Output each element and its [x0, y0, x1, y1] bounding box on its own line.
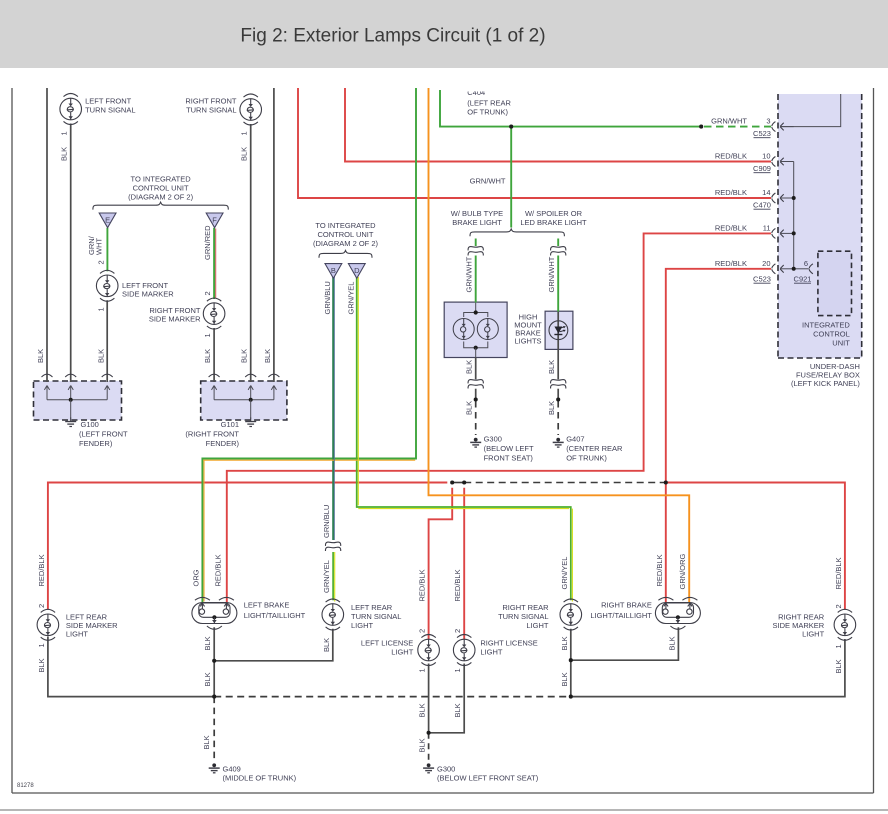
svg-text:CONTROL UNIT: CONTROL UNIT [318, 230, 374, 239]
svg-text:RED/BLK: RED/BLK [655, 554, 664, 586]
svg-text:1: 1 [203, 333, 212, 337]
wire GRN/WHT branch to bulb type high mount box [475, 239, 477, 247]
svg-text:BLK: BLK [202, 735, 211, 749]
svg-text:2: 2 [834, 604, 843, 608]
connector entry pin 11 [772, 228, 794, 238]
svg-text:GRN/ORG: GRN/ORG [678, 554, 687, 590]
break connector on left GRN/WHT branch [468, 247, 483, 256]
wire GRN/WHT horizontal to fuse box pin 3 [440, 90, 701, 127]
svg-text:(BELOW LEFT: (BELOW LEFT [484, 444, 534, 453]
svg-text:D: D [354, 266, 360, 275]
svg-text:BLK: BLK [465, 401, 474, 415]
wire BLK left brake light to ground bus [213, 627, 215, 696]
svg-text:BLK: BLK [547, 401, 556, 415]
svg-text:GRN/BLU: GRN/BLU [322, 505, 331, 538]
svg-text:BLK: BLK [96, 349, 105, 363]
junction dot right turn ground [569, 658, 573, 662]
junction dot fuse box bus pin11 [792, 231, 796, 235]
svg-text:TO INTEGRATED: TO INTEGRATED [315, 221, 376, 230]
svg-text:C523: C523 [753, 275, 771, 284]
junction dot ground bus left [212, 695, 216, 699]
svg-text:TURN SIGNAL: TURN SIGNAL [85, 106, 135, 115]
svg-text:BLK: BLK [203, 672, 212, 686]
connector entry pin 3 C523 [772, 122, 794, 132]
wire BLK dashed drop to G409 [213, 697, 215, 760]
lamp LEFT BRAKE LIGHT/TAILLIGHT [192, 597, 237, 629]
svg-text:OF TRUNK): OF TRUNK) [566, 453, 607, 462]
svg-text:TURN SIGNAL: TURN SIGNAL [351, 612, 401, 621]
svg-text:LIGHT/TAILLIGHT: LIGHT/TAILLIGHT [244, 611, 306, 620]
wire RED/BLK splice to left license light [429, 488, 453, 640]
connector F triangle [206, 213, 223, 228]
connector D triangle [348, 264, 365, 279]
svg-text:G300: G300 [437, 765, 455, 774]
svg-text:2: 2 [37, 604, 46, 608]
svg-text:G100: G100 [81, 420, 99, 429]
svg-text:20: 20 [762, 259, 770, 268]
svg-text:2: 2 [203, 291, 212, 295]
svg-text:BLK: BLK [37, 658, 46, 672]
connector entry pin 10 C909 [772, 157, 794, 167]
wire entry cups ground boxes [42, 374, 53, 377]
svg-text:GRN/YEL: GRN/YEL [560, 557, 569, 590]
svg-text:GRN/RED: GRN/RED [203, 225, 212, 260]
svg-text:TURN SIGNAL: TURN SIGNAL [498, 612, 548, 621]
svg-text:LIGHT: LIGHT [391, 648, 414, 657]
wire inside fuse box: pin3 feed from ICU top [780, 94, 841, 127]
svg-text:LEFT LICENSE: LEFT LICENSE [361, 639, 413, 648]
svg-text:RED/BLK: RED/BLK [715, 188, 747, 197]
junction dot ground bus right [569, 695, 573, 699]
lamp RIGHT LICENSE LIGHT [453, 635, 475, 666]
svg-text:6: 6 [804, 259, 808, 268]
junction dot fuse box bus pin14 [792, 196, 796, 200]
svg-text:C921: C921 [794, 275, 812, 284]
wire BLK solid bus right side marker [572, 639, 845, 697]
svg-text:CONTROL UNIT: CONTROL UNIT [133, 184, 189, 193]
svg-text:FRONT SEAT): FRONT SEAT) [484, 453, 534, 462]
svg-text:INTEGRATED: INTEGRATED [802, 321, 850, 330]
svg-text:81278: 81278 [17, 783, 34, 789]
svg-text:BLK: BLK [240, 349, 249, 363]
ground G300 (below left front seat) mid [470, 438, 481, 447]
ground G407 (center rear of trunk) [553, 438, 564, 447]
svg-text:RED/BLK: RED/BLK [453, 569, 462, 601]
svg-text:GRN/WHT: GRN/WHT [465, 256, 474, 292]
lamp RIGHT REAR SIDE MARKER LIGHT [834, 609, 856, 640]
junction dot splice right license [462, 480, 466, 484]
lamp RIGHT REAR TURN SIGNAL LIGHT [560, 599, 582, 630]
svg-text:W/ SPOILER OR: W/ SPOILER OR [525, 209, 583, 218]
svg-text:1: 1 [37, 643, 46, 647]
wire BLK right column into G101 [273, 88, 275, 382]
svg-text:LIGHT: LIGHT [351, 621, 374, 630]
svg-text:GRN/BLU: GRN/BLU [323, 281, 332, 314]
svg-text:BLK: BLK [547, 360, 556, 374]
svg-text:BLK: BLK [560, 636, 569, 650]
svg-text:RED/BLK: RED/BLK [834, 557, 843, 589]
junction dot license lights join [427, 731, 431, 735]
svg-text:(LEFT FRONT: (LEFT FRONT [79, 430, 128, 439]
svg-text:C523: C523 [753, 129, 771, 138]
wire RED/BLK branch to right rear side marker [666, 483, 845, 610]
wire BLK left license light drop [428, 664, 430, 733]
svg-text:C909: C909 [753, 164, 771, 173]
svg-text:BLK: BLK [453, 703, 462, 717]
svg-text:BLK: BLK [36, 349, 45, 363]
svg-text:1: 1 [834, 644, 843, 648]
svg-text:FENDER): FENDER) [206, 439, 240, 448]
svg-text:GRN/YEL: GRN/YEL [322, 560, 331, 593]
svg-text:BLK: BLK [203, 349, 212, 363]
lamp LEFT REAR SIDE MARKER LIGHT [37, 609, 59, 640]
svg-text:(BELOW LEFT FRONT SEAT): (BELOW LEFT FRONT SEAT) [437, 774, 539, 783]
wire BLK right license light joins left [430, 664, 465, 733]
wire BLK from left front side marker to G100 [106, 300, 108, 382]
lamp HIGH MOUNT BRAKE LIGHTS bulb 2 [477, 318, 498, 339]
brace to integrated control unit (middle) [319, 250, 372, 257]
svg-text:G407: G407 [566, 435, 584, 444]
svg-text:FENDER): FENDER) [79, 439, 113, 448]
svg-text:G300: G300 [484, 435, 502, 444]
connector C921 socket [809, 264, 813, 274]
svg-text:RED/BLK: RED/BLK [37, 554, 46, 586]
svg-text:LIGHT: LIGHT [802, 630, 825, 639]
wire BLK right rear turn signal to ground bus [570, 629, 572, 697]
wire ORG orange stripe [203, 459, 415, 461]
svg-text:GRN/YEL: GRN/YEL [346, 282, 355, 315]
svg-text:10: 10 [762, 152, 770, 161]
svg-text:2: 2 [96, 260, 105, 264]
svg-text:RIGHT FRONT: RIGHT FRONT [185, 97, 237, 106]
svg-text:LIGHT: LIGHT [66, 630, 89, 639]
svg-text:2: 2 [453, 629, 462, 633]
junction dot splice left license [450, 480, 454, 484]
lamp RIGHT BRAKE LIGHT/TAILLIGHT [655, 597, 700, 629]
wire GRN/BLU from connector B [332, 276, 334, 541]
wire GRN/RED red stripe [215, 229, 217, 299]
wire GRN/RED connector F to right front side marker [213, 228, 215, 299]
junction dot pin20 branch [664, 480, 668, 484]
svg-text:(RIGHT FRONT: (RIGHT FRONT [185, 430, 239, 439]
svg-text:W/ BULB TYPE: W/ BULB TYPE [451, 209, 503, 218]
svg-text:2: 2 [418, 629, 427, 633]
connector E triangle [99, 213, 116, 228]
junction dot GRN/WHT tap [509, 125, 513, 129]
integrated control unit box [818, 251, 852, 315]
led HIGH MOUNT BRAKE LIGHT (led type) [549, 312, 568, 350]
lamp LEFT FRONT TURN SIGNAL [60, 94, 82, 125]
svg-text:WHT: WHT [95, 238, 104, 255]
svg-text:(LEFT REAR: (LEFT REAR [467, 99, 511, 108]
wire RED/BLK pin 20 down to right brake light/taillight [666, 269, 771, 603]
svg-text:(MIDDLE OF TRUNK): (MIDDLE OF TRUNK) [223, 774, 297, 783]
svg-text:LEFT BRAKE: LEFT BRAKE [244, 601, 290, 610]
svg-text:1: 1 [240, 131, 249, 135]
svg-text:RIGHT LICENSE: RIGHT LICENSE [480, 639, 537, 648]
connector B triangle [325, 264, 342, 279]
svg-text:1: 1 [418, 668, 427, 672]
ground box G101 (right front fender) [201, 381, 287, 420]
svg-text:LIGHT: LIGHT [526, 621, 549, 630]
svg-text:CONTROL: CONTROL [813, 330, 850, 339]
svg-text:11: 11 [763, 223, 771, 232]
wire inside fuse box: vertical bus [793, 162, 795, 269]
ground symbol in G100 [44, 386, 109, 419]
SECTION: frame [11, 88, 13, 793]
wire GRN/BLU blue stripe [334, 277, 336, 541]
lamp RIGHT FRONT SIDE MARKER [203, 298, 225, 329]
lamp LEFT FRONT SIDE MARKER [96, 270, 118, 301]
svg-text:F: F [212, 216, 217, 225]
svg-text:BLK: BLK [263, 349, 272, 363]
svg-text:RIGHT BRAKE: RIGHT BRAKE [601, 601, 652, 610]
wire BLK left column into G100 [46, 88, 48, 382]
svg-text:OF TRUNK): OF TRUNK) [467, 108, 508, 117]
wire BLK right brake light joins right turn signal [572, 627, 679, 660]
svg-text:TURN SIGNAL: TURN SIGNAL [186, 106, 236, 115]
lamp RIGHT FRONT TURN SIGNAL [240, 94, 262, 125]
svg-text:BLK: BLK [203, 636, 212, 650]
junction dot led ground splice [556, 397, 560, 401]
break connector below led box [551, 380, 566, 389]
junction dot high mount ground splice [474, 397, 478, 401]
brace brake light types [470, 229, 564, 236]
ground box G100 (left front fender) [34, 381, 122, 420]
svg-text:1: 1 [96, 307, 105, 311]
svg-text:BLK: BLK [418, 738, 427, 752]
svg-text:1: 1 [60, 131, 69, 135]
wire BLK dashed to ground G300 bottom [428, 733, 430, 760]
wire BLK left rear side marker to ground bus [48, 637, 213, 697]
svg-text:BRAKE LIGHT: BRAKE LIGHT [452, 218, 502, 227]
wire ORG (green) to left brake light/taillight [202, 88, 416, 603]
wire BLK dashed to ground G300 below box [475, 401, 477, 435]
svg-text:1: 1 [453, 668, 462, 672]
wire GRN/WHT connector E to left front side marker [106, 228, 108, 272]
connector entry pin 20 C523 [772, 264, 794, 274]
svg-text:GRN/WHT: GRN/WHT [711, 117, 747, 126]
svg-text:(LEFT KICK PANEL): (LEFT KICK PANEL) [791, 379, 860, 388]
break connector on right GRN/WHT branch [551, 247, 566, 256]
svg-text:G409: G409 [223, 765, 241, 774]
wire BLK from left front turn signal to G100 [70, 124, 72, 383]
svg-text:(CENTER REAR: (CENTER REAR [566, 444, 623, 453]
wire RED/BLK pin 11 to left brake light/taillight [227, 233, 771, 602]
svg-text:LIGHT/TAILLIGHT: LIGHT/TAILLIGHT [590, 611, 652, 620]
wire BLK below high mount bulbs box [475, 358, 477, 380]
wire BLK from right front side marker to G101 [213, 328, 215, 382]
wire RED/BLK to fuse box pin 10 [345, 88, 771, 162]
ground G409 (middle of trunk) [209, 763, 220, 772]
svg-text:B: B [331, 266, 336, 275]
svg-text:(DIAGRAM 2 OF 2): (DIAGRAM 2 OF 2) [128, 193, 194, 202]
high mount brake lights box (bulb type) [444, 302, 507, 357]
wire inside fuse box: C921 link [794, 268, 809, 270]
wire RED/BLK splice to right license light [463, 488, 465, 640]
wire BLK dashed splice link at y482 [452, 482, 464, 484]
SECTION: header [0, 0, 888, 68]
wire GRN/YEL yellow stripe (D net) [357, 277, 359, 505]
svg-text:Fig 2: Exterior Lamps Circuit: Fig 2: Exterior Lamps Circuit (1 of 2) [240, 26, 545, 47]
wire GRN/YEL from connector D to right rear turn signal [357, 276, 571, 601]
svg-text:LEFT REAR: LEFT REAR [351, 603, 393, 612]
svg-text:GRN/WHT: GRN/WHT [470, 177, 506, 186]
svg-text:BLK: BLK [834, 659, 843, 673]
ground symbol in G101 [212, 386, 277, 419]
under-dash fuse/relay box (left kick panel) [778, 94, 862, 358]
svg-text:C470: C470 [753, 201, 771, 210]
wire BLK dashed ground bus [214, 696, 571, 698]
svg-text:RED/BLK: RED/BLK [715, 223, 747, 232]
svg-text:SIDE MARKER: SIDE MARKER [149, 315, 201, 324]
wire GRN/ORG (orange) to right brake light/taillight [429, 88, 690, 603]
svg-text:RED/BLK: RED/BLK [214, 554, 223, 586]
wire RED/BLK to fuse box pin 14 [298, 88, 771, 198]
wire BLK dashed to ground G407 [557, 401, 559, 435]
svg-text:3: 3 [766, 117, 770, 126]
junction dot left brake ground [212, 659, 216, 663]
high mount bulbs internals [464, 303, 488, 358]
svg-text:RED/BLK: RED/BLK [418, 569, 427, 601]
svg-text:BLK: BLK [418, 703, 427, 717]
ground G300 (below left front seat) bottom [423, 763, 434, 772]
svg-text:LED BRAKE LIGHT: LED BRAKE LIGHT [520, 218, 587, 227]
lamp LEFT LICENSE LIGHT [418, 635, 440, 666]
junction dot GRN/WHT dashed start [699, 125, 703, 129]
svg-text:(DIAGRAM 2 OF 2): (DIAGRAM 2 OF 2) [313, 239, 379, 248]
svg-text:E: E [105, 216, 110, 225]
svg-text:BLK: BLK [60, 147, 69, 161]
svg-text:BLK: BLK [465, 360, 474, 374]
svg-text:LIGHTS: LIGHTS [514, 337, 541, 346]
wire GRN/WHT branch to led type box [557, 239, 559, 247]
svg-text:G101: G101 [221, 420, 239, 429]
wire GRN/WHT dashed segment at pin 3 [704, 126, 771, 128]
svg-text:ORG: ORG [191, 569, 200, 586]
svg-text:RIGHT REAR: RIGHT REAR [502, 603, 549, 612]
svg-text:UNIT: UNIT [832, 339, 850, 348]
lamp LEFT REAR TURN SIGNAL LIGHT [322, 599, 344, 630]
rotated wire labels [36, 131, 843, 752]
wire BLK below led box [557, 349, 559, 379]
wire GRN/YEL yellow stripe (left rear turn) [334, 552, 336, 602]
wire RED/BLK to left rear side marker [48, 483, 447, 610]
svg-text:BLK: BLK [240, 147, 249, 161]
svg-text:BLK: BLK [560, 672, 569, 686]
svg-text:LIGHT: LIGHT [480, 648, 503, 657]
junction dot fuse box bus pin20 [792, 267, 796, 271]
wire GRN/WHT drop to brake light brace [510, 127, 512, 228]
svg-text:GRN/WHT: GRN/WHT [547, 256, 556, 292]
svg-text:TO INTEGRATED: TO INTEGRATED [131, 175, 192, 184]
connector entry pin 14 C470 [772, 193, 794, 203]
wire GRN/YEL to left rear turn signal [332, 552, 334, 600]
svg-text:14: 14 [762, 188, 770, 197]
brace to integrated control unit (left) [93, 202, 228, 209]
led brake light box [545, 311, 573, 349]
svg-text:RED/BLK: RED/BLK [715, 152, 747, 161]
wire BLK from right front turn signal to G101 [250, 124, 252, 382]
lamp HIGH MOUNT BRAKE LIGHTS bulb 1 [453, 318, 474, 339]
break connector below high mount box [468, 380, 483, 389]
svg-text:BLK: BLK [667, 636, 676, 650]
svg-text:RED/BLK: RED/BLK [715, 259, 747, 268]
break connector GRN/BLU to GRN/YEL [325, 542, 340, 551]
wire BLK left rear turn signal joins left brake [215, 629, 333, 661]
svg-text:LEFT FRONT: LEFT FRONT [85, 97, 132, 106]
svg-text:BLK: BLK [322, 638, 331, 652]
svg-text:SIDE MARKER: SIDE MARKER [122, 290, 174, 299]
